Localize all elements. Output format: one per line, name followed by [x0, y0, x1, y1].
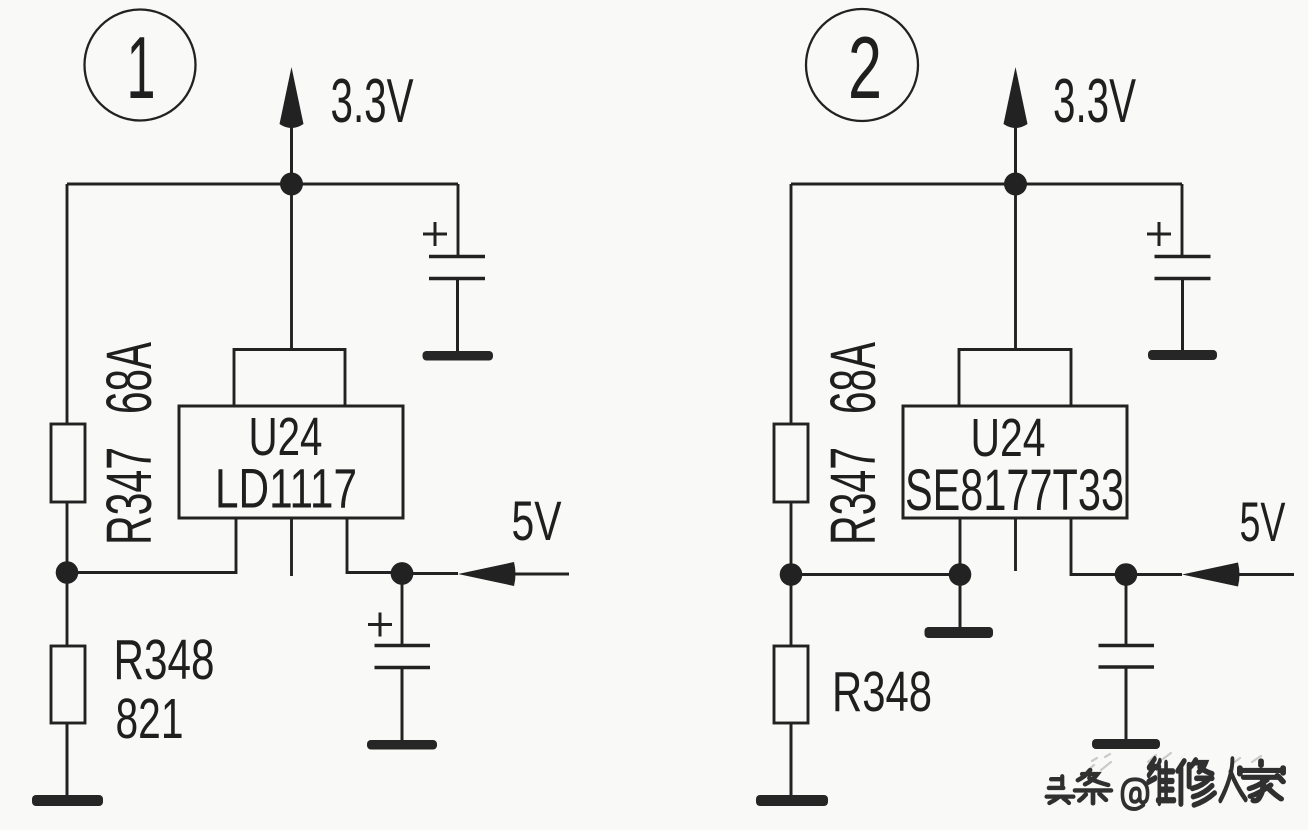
svg-text:R348: R348 — [114, 628, 215, 692]
regulator U24 outline circuit 2 — [903, 406, 1127, 518]
power arrow 3.3V circuit 1 — [280, 67, 304, 184]
svg-text:5V: 5V — [512, 489, 562, 552]
sheet marker circle 1 — [85, 10, 196, 121]
node output junction circuit 2 — [1115, 563, 1138, 586]
watermark char 修 — [1178, 760, 1215, 805]
ground input cap circuit 1 — [423, 351, 494, 361]
regulator U24 tab circuit 1 — [234, 350, 345, 407]
node lower-left junction circuit 2 — [780, 563, 803, 586]
sheet marker circle 2 — [806, 9, 918, 121]
node 3.3V rail junction circuit 1 — [280, 173, 303, 196]
watermark char @ — [1122, 779, 1147, 809]
wire 3.3V rail horizontal circuit 1 — [67, 183, 458, 186]
svg-text:5V: 5V — [1240, 490, 1286, 553]
svg-text:2: 2 — [848, 18, 882, 117]
svg-text:821: 821 — [116, 687, 184, 751]
pin U24 pin1 circuit 2 — [959, 518, 962, 575]
wire output node down to cap circuit 1 — [401, 574, 404, 646]
svg-text:R348: R348 — [832, 660, 932, 724]
pin U24 pin3 to output node circuit 2 — [1071, 518, 1126, 575]
wire left branch down to R347 circuit 2 — [790, 184, 793, 424]
watermark char 条 — [1075, 770, 1111, 803]
ground pin1 circuit 2 — [925, 627, 994, 638]
node lower-left junction circuit 1 — [56, 561, 79, 584]
wire R348 to ground circuit 2 — [790, 723, 793, 796]
ground R348 circuit 2 — [756, 795, 828, 806]
capacitor output circuit 1 — [375, 646, 431, 668]
resistor R347 circuit 2 — [774, 424, 808, 502]
wire lower-left node down to R348 circuit 2 — [790, 575, 793, 647]
wire 3.3V node down to U24 tab circuit 1 — [290, 184, 293, 350]
ground input cap circuit 2 — [1148, 350, 1217, 360]
power arrow 5V circuit 1 — [458, 562, 569, 586]
node 3.3V rail junction circuit 2 — [1004, 173, 1027, 196]
node pin1 junction circuit 2 — [949, 563, 972, 586]
wire pin1 node to ground circuit 2 — [959, 575, 962, 629]
wire 3.3V rail horizontal circuit 2 — [791, 183, 1182, 186]
capacitor input circuit 1 — [429, 257, 485, 279]
node output junction circuit 1 — [391, 562, 414, 585]
wire output cap to ground circuit 2 — [1125, 667, 1128, 740]
resistor R347 circuit 1 — [51, 424, 85, 502]
plus sign input cap circuit 1 — [423, 222, 447, 246]
wire lower-left node down to R348 circuit 1 — [66, 573, 69, 647]
wire 3.3V rail right branch down circuit 2 — [1181, 184, 1184, 256]
resistor R348 circuit 2 — [774, 646, 808, 723]
wire R348 to ground circuit 1 — [66, 723, 69, 796]
wire R347 to lower rail circuit 2 — [790, 502, 793, 574]
watermark char 家 — [1240, 761, 1283, 801]
svg-text:68A: 68A — [817, 342, 889, 414]
wire node to 5V arrow circuit 2 — [1126, 573, 1182, 576]
watermark text 头条@维修人家 — [1047, 759, 1284, 809]
wire 3.3V rail right branch down circuit 1 — [457, 184, 460, 256]
svg-text:3.3V: 3.3V — [331, 67, 414, 136]
wire node to 5V arrow circuit 1 — [402, 572, 458, 575]
svg-text:R347: R347 — [93, 447, 165, 545]
watermark char 头 — [1047, 776, 1074, 803]
wire output cap to ground circuit 1 — [401, 668, 404, 742]
svg-text:R347: R347 — [817, 447, 889, 545]
pin U24 pin3 to output node circuit 1 — [347, 518, 402, 573]
wire lower rail to pin1 node circuit 2 — [791, 573, 960, 576]
regulator U24 outline circuit 1 — [179, 406, 403, 518]
power arrow 3.3V circuit 2 — [1004, 67, 1028, 184]
wire input cap to ground circuit 2 — [1181, 279, 1184, 352]
ground output cap circuit 1 — [367, 740, 437, 750]
watermark ghost strokes — [1086, 753, 1261, 772]
svg-text:68A: 68A — [93, 342, 165, 414]
wire R347 to lower rail circuit 1 — [66, 502, 69, 572]
wire lower rail to U24 pin1 circuit 1 — [67, 518, 236, 573]
regulator U24 tab circuit 2 — [959, 350, 1071, 407]
capacitor input circuit 2 — [1155, 257, 1211, 279]
pin U24 middle circuit 2 — [1014, 518, 1017, 571]
wire output node down to cap circuit 2 — [1125, 575, 1128, 646]
power arrow 5V circuit 2 — [1182, 563, 1294, 587]
wire input cap to ground circuit 1 — [456, 279, 459, 352]
watermark char 人 — [1220, 759, 1245, 800]
pin U24 middle circuit 1 — [290, 518, 293, 576]
capacitor output circuit 2 — [1099, 646, 1155, 668]
svg-text:1: 1 — [127, 18, 156, 117]
ground output cap circuit 2 — [1092, 739, 1160, 749]
ground R348 circuit 1 — [32, 795, 103, 806]
svg-text:LD1117: LD1117 — [215, 457, 357, 520]
plus sign input cap circuit 2 — [1147, 222, 1171, 246]
svg-text:SE8177T33: SE8177T33 — [905, 458, 1124, 523]
watermark char 维 — [1148, 759, 1174, 803]
wire left branch down to R347 circuit 1 — [66, 184, 69, 424]
plus sign output cap circuit 1 — [368, 613, 392, 637]
svg-text:3.3V: 3.3V — [1053, 67, 1136, 136]
wire 3.3V node down to U24 tab circuit 2 — [1014, 184, 1017, 350]
resistor R348 circuit 1 — [51, 646, 85, 723]
